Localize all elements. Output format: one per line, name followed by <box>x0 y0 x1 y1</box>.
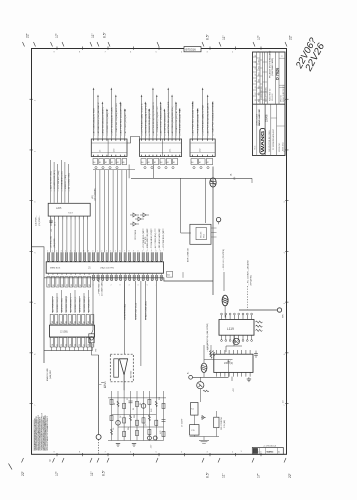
svg-text:A62: A62 <box>167 274 170 277</box>
svg-text:2.5V (4B): 2.5V (4B) <box>224 420 226 428</box>
svg-text:B5: B5 <box>71 284 73 286</box>
svg-text:C9: C9 <box>92 344 94 346</box>
svg-text:4: 4 <box>65 251 66 253</box>
svg-text:— LO PWR ATE (3A8): — LO PWR ATE (3A8) <box>57 170 60 191</box>
svg-text:17": 17" <box>257 34 261 40</box>
svg-text:CR2 1N914: CR2 1N914 <box>135 230 137 240</box>
svg-text:8300-XXX: 8300-XXX <box>283 142 285 151</box>
svg-text:230-1 SSD704: 230-1 SSD704 <box>221 418 223 430</box>
svg-text:— I CAR PWR US(5A4) LO MEM C: — I CAR PWR US(5A4) LO MEM C <box>212 101 215 136</box>
svg-text:+1 (TV-06) 4-6: +1 (TV-06) 4-6 <box>263 446 277 448</box>
svg-text:8.5": 8.5" <box>102 469 106 476</box>
svg-text:— STB/PB AT (5B1) LO P: — STB/PB AT (5B1) LO P <box>163 110 166 136</box>
svg-text:C6: C6 <box>79 344 81 346</box>
svg-text:C9: C9 <box>113 428 115 430</box>
svg-text:C7: C7 <box>83 344 85 346</box>
svg-text:A0: A0 <box>93 161 95 164</box>
svg-text:8.5": 8.5" <box>103 31 107 38</box>
svg-text:— MEM DV (7B6): — MEM DV (7B6) <box>65 175 67 192</box>
svg-text:0: 0 <box>47 251 48 253</box>
svg-text:— TO BA MEM (C59): — TO BA MEM (C59) <box>60 171 63 191</box>
svg-text:8: 8 <box>83 251 84 253</box>
svg-text:C3: C3 <box>65 344 67 346</box>
svg-text:— R21 XXX (TP4/TP8): — R21 XXX (TP4/TP8) <box>223 249 225 271</box>
svg-text:MEM BUS: MEM BUS <box>50 268 61 270</box>
svg-text:— PCB MAR (B55) AD PWR: — PCB MAR (B55) AD PWR <box>197 108 200 136</box>
svg-text:— I CAR PWR US(5A4) AND SIG: — I CAR PWR US(5A4) AND SIG <box>115 103 118 136</box>
svg-text:NO/DESCRIPTION: NO/DESCRIPTION <box>261 85 263 100</box>
svg-text:(4F): (4F) <box>92 195 94 199</box>
svg-text:J2 (5B): J2 (5B) <box>60 331 68 334</box>
svg-text:(7A2) 100 PIN: (7A2) 100 PIN <box>100 267 114 270</box>
svg-text:AD7520: AD7520 <box>130 370 133 378</box>
svg-text:(5A4) REF: (5A4) REF <box>49 369 52 379</box>
svg-text:RD MEM GATE(2: RD MEM GATE(2 <box>83 295 86 312</box>
svg-text:A0: A0 <box>141 161 143 164</box>
svg-text:22": 22" <box>26 32 30 38</box>
svg-text:— AC CONN (B54) I/O PWR: — AC CONN (B54) I/O PWR <box>93 108 96 136</box>
svg-text:R11: R11 <box>134 415 136 418</box>
svg-text:B0: B0 <box>48 284 50 286</box>
svg-text:22": 22" <box>288 472 292 478</box>
svg-text:A5: A5 <box>173 161 175 164</box>
svg-text:A2: A2 <box>105 161 107 164</box>
svg-text:A3: A3 <box>111 161 113 164</box>
svg-text:MODEL NO.: MODEL NO. <box>279 142 281 152</box>
svg-text:A4: A4 <box>117 161 119 164</box>
svg-text:A2: A2 <box>154 161 156 164</box>
svg-text:615-XXXX: 615-XXXX <box>272 93 274 101</box>
svg-text:6: 6 <box>147 285 148 287</box>
svg-text:LO MEM CHG (3: LO MEM CHG (3 <box>75 296 77 312</box>
svg-text:— LO ADR LOW (6F7): — LO ADR LOW (6F7) <box>53 170 56 191</box>
svg-text:D 7026: D 7026 <box>275 68 279 80</box>
svg-text:A3: A3 <box>160 161 162 164</box>
svg-text:— LO ADR LOW (6F7) AT CONN2: — LO ADR LOW (6F7) AT CONN2 <box>175 102 178 136</box>
svg-text:7417: 7417 <box>68 213 74 215</box>
svg-text:REV: REV <box>258 86 260 89</box>
svg-text:5: 5 <box>115 251 116 253</box>
svg-text:B3: B3 <box>62 284 64 286</box>
svg-text:REV: REV <box>258 92 260 95</box>
svg-text:(TP5)(P7B): (TP5)(P7B) <box>251 275 253 285</box>
svg-text:22": 22" <box>289 34 293 40</box>
svg-text:MEM DV (7B6): MEM DV (7B6) <box>80 298 82 312</box>
svg-text:C0: C0 <box>52 344 54 346</box>
svg-text:8619: 8619 <box>204 234 206 238</box>
svg-text:B75316: B75316 <box>186 48 197 52</box>
svg-text:REV: REV <box>258 59 260 62</box>
svg-text:R14: R14 <box>128 427 130 430</box>
svg-text:A1: A1 <box>199 161 201 164</box>
svg-text:— MEM ADR SEL(3A7: — MEM ADR SEL(3A7 <box>146 228 149 250</box>
svg-text:8.5": 8.5" <box>206 33 210 40</box>
svg-text:— DRV SEL (B41) AC CONN: — DRV SEL (B41) AC CONN <box>110 107 113 136</box>
svg-text:— RD MEM GATE(2A): — RD MEM GATE(2A) <box>158 229 161 250</box>
svg-text:WANG LABS INC: WANG LABS INC <box>258 109 261 126</box>
svg-text:— AD BAR MEM (7A7) AD BAR M: — AD BAR MEM (7A7) AD BAR M <box>97 102 100 136</box>
svg-text:— TO BA MEM (C59): — TO BA MEM (C59) <box>150 230 153 250</box>
svg-text:I/H ADJ CONN (2B4): I/H ADJ CONN (2B4) <box>145 301 148 320</box>
svg-text:PC MOTHERBOARD ASSY: PC MOTHERBOARD ASSY <box>272 128 275 150</box>
svg-text:— ADT I/O RST (7B4) LO ADR L: — ADT I/O RST (7B4) LO ADR L <box>160 103 163 136</box>
svg-text:C5: C5 <box>74 344 76 346</box>
svg-text:WANG: WANG <box>260 130 265 152</box>
svg-text:— LO MEM CHG (3A9) I C: — LO MEM CHG (3A9) I C <box>106 109 109 136</box>
svg-text:Q3: Q3 <box>145 424 147 426</box>
svg-text:17": 17" <box>55 32 59 38</box>
svg-text:— A07 PWR REV (2C4) TO BA ME: — A07 PWR REV (2C4) TO BA ME <box>167 101 170 136</box>
svg-text:— L EXP IN (3A1): — L EXP IN (3A1) <box>124 304 127 320</box>
svg-text:C2 .1: C2 .1 <box>55 222 57 226</box>
svg-text:LO MEM CHG (3: LO MEM CHG (3 <box>57 296 59 312</box>
svg-text:— LO PWR ATE (3A8) I/O PWR: — LO PWR ATE (3A8) I/O PWR <box>202 104 205 136</box>
svg-text:REV: REV <box>258 73 260 76</box>
svg-text:REV: REV <box>258 99 260 102</box>
svg-text:— P4, 10 DR2V—(2B1)DN8: — P4, 10 DR2V—(2B1)DN8 <box>248 259 250 285</box>
svg-text:LO GATE (2B6): LO GATE (2B6) <box>101 281 104 296</box>
svg-text:— AC CONN (B54) A07 PW: — AC CONN (B54) A07 PW <box>124 108 127 136</box>
svg-text:— PCB MAR (B55) AD PWR: — PCB MAR (B55) AD PWR <box>179 108 182 136</box>
svg-text:REV: REV <box>258 79 260 82</box>
svg-text:C4: C4 <box>70 344 72 346</box>
svg-text:C7 100MF: C7 100MF <box>181 418 183 427</box>
svg-text:A07 PWR REV (: A07 PWR REV ( <box>70 297 73 312</box>
svg-text:— A07 PWR REV (2C4) AT CONN2: — A07 PWR REV (2C4) AT CONN2 <box>192 100 195 136</box>
svg-text:— TO LEV CHM (2B7) PCB: — TO LEV CHM (2B7) PCB <box>149 108 151 136</box>
svg-text:— I/O PWR BUS (5B: — I/O PWR BUS (5B <box>163 230 165 250</box>
svg-text:C1: C1 <box>56 344 58 346</box>
svg-text:— LO PWR ATE (3A8) TO LEV C: — LO PWR ATE (3A8) TO LEV C <box>141 103 144 136</box>
svg-text:— AT CONN2 (7B4): — AT CONN2 (7B4) <box>68 173 71 192</box>
svg-text:R4: R4 <box>114 403 116 405</box>
svg-text:B1: B1 <box>53 284 55 286</box>
svg-text:0: 0 <box>137 251 138 253</box>
svg-text:B7: B7 <box>80 284 82 286</box>
svg-text:R24: R24 <box>159 397 161 400</box>
svg-text:ANALOG GND: ANALOG GND <box>46 368 49 381</box>
svg-text:2: 2 <box>111 285 112 287</box>
svg-text:— RD MEM GATE(2A) STB/PB A: — RD MEM GATE(2A) STB/PB A <box>144 103 147 136</box>
svg-text:(3A2) BUS: (3A2) BUS <box>53 238 56 248</box>
svg-text:— ADT I/O RST (7B4): — ADT I/O RST (7B4) <box>50 171 53 192</box>
svg-text:9: 9 <box>88 251 89 253</box>
svg-text:C2: C2 <box>61 344 63 346</box>
svg-text:22": 22" <box>21 470 25 476</box>
svg-text:B6: B6 <box>76 284 78 286</box>
svg-text:PC ASSY MOTHERBOARD: PC ASSY MOTHERBOARD <box>268 50 271 78</box>
svg-text:WANG: WANG <box>267 451 274 454</box>
svg-text:C8: C8 <box>88 344 90 346</box>
svg-text:A07 PWR REV (: A07 PWR REV ( <box>52 297 55 312</box>
svg-text:1: 1 <box>97 251 98 253</box>
svg-text:3: 3 <box>61 251 62 253</box>
svg-text:AMP CONN (5F): AMP CONN (5F) <box>187 247 190 262</box>
svg-text:17": 17" <box>55 470 59 476</box>
svg-text:B9: B9 <box>89 284 91 286</box>
svg-text:A STR/LONG: A STR/LONG <box>50 236 53 248</box>
svg-text:A1: A1 <box>99 161 101 164</box>
svg-text:(C4) PWR—: (C4) PWR— <box>36 215 38 226</box>
svg-text:— PWR SW2 (B52): — PWR SW2 (B52) <box>99 277 101 296</box>
svg-text:L119: L119 <box>227 327 234 331</box>
svg-text:— A07 PWR REV (2C4) DRV SEL: — A07 PWR REV (2C4) DRV SEL <box>119 102 122 136</box>
svg-text:A07 PWR REV (: A07 PWR REV ( <box>88 297 91 312</box>
svg-text:— I/O PWR BUS (5B: — I/O PWR BUS (5B <box>143 230 145 250</box>
svg-text:4: 4 <box>129 285 130 287</box>
svg-text:— TO BA MEM (C59) ADT I/O: — TO BA MEM (C59) ADT I/O <box>156 106 159 136</box>
svg-text:TP2: TP2 <box>96 349 98 352</box>
svg-text:A2: A2 <box>207 161 209 164</box>
svg-text:— AD PWR BUS(1C5) RD MEM G: — AD PWR BUS(1C5) RD MEM G <box>152 102 155 136</box>
svg-text:2: 2 <box>101 251 102 253</box>
svg-text:7: 7 <box>79 251 80 253</box>
svg-text:(FLAT RAM CARD): (FLAT RAM CARD) <box>271 58 274 76</box>
svg-text:RD MEM GATE(2: RD MEM GATE(2 <box>65 295 68 312</box>
svg-text:B8: B8 <box>85 284 87 286</box>
svg-text:B2: B2 <box>57 284 59 286</box>
svg-text:R9: R9 <box>140 403 142 405</box>
svg-text:B4: B4 <box>67 284 69 286</box>
svg-text:C7: C7 <box>127 398 129 400</box>
svg-text:MEM DV (7B6): MEM DV (7B6) <box>62 298 64 312</box>
svg-text:5: 5 <box>70 251 71 253</box>
svg-text:TITLE: TITLE <box>254 146 256 150</box>
svg-text:A5: A5 <box>122 161 124 164</box>
svg-text:LOWELL MASS: LOWELL MASS <box>256 113 259 126</box>
svg-text:0PNHHLRTIA93DTRT5D8WADICHDE8CF: 0PNHHLRTIA93DTRT5D8WADICHDE8CF <box>46 415 49 450</box>
svg-text:REV: REV <box>258 66 260 69</box>
svg-text:6: 6 <box>119 251 120 253</box>
svg-text:1: 1 <box>52 251 53 253</box>
svg-text:— AND SIG (B51) LO MEM C: — AND SIG (B51) LO MEM C <box>101 107 104 136</box>
svg-text:Q2: Q2 <box>120 416 122 418</box>
svg-text:8.5": 8.5" <box>206 471 210 478</box>
svg-text:L205: L205 <box>56 207 62 210</box>
svg-text:DWG NO: DWG NO <box>281 95 283 102</box>
svg-text:— 2.5V GEN(2CH)+(2A4,12PWR): — 2.5V GEN(2CH)+(2A4,12PWR) <box>206 323 209 352</box>
svg-text:A4: A4 <box>167 161 169 164</box>
svg-text:— AD PWR BUS(1C5) AD BAR M: — AD PWR BUS(1C5) AD BAR M <box>207 103 210 136</box>
svg-text:22V06: 22V06 <box>265 114 269 122</box>
svg-text:9: 9 <box>133 251 134 253</box>
svg-text:I L EXP OUT (5C2): I L EXP OUT (5C2) <box>135 303 137 320</box>
svg-text:A0: A0 <box>191 161 193 164</box>
svg-text:— AC CONN (B54): — AC CONN (B54) <box>154 232 157 250</box>
svg-text:17": 17" <box>257 472 261 478</box>
svg-text:MOLEX: MOLEX <box>201 231 203 238</box>
svg-text:(C5) PWR—: (C5) PWR— <box>39 215 41 226</box>
svg-text:A1: A1 <box>148 161 150 164</box>
svg-text:AR SIG: AR SIG <box>104 381 107 388</box>
svg-text:— AC CONN (B54) MEM DV (: — AC CONN (B54) MEM DV ( <box>171 106 174 136</box>
